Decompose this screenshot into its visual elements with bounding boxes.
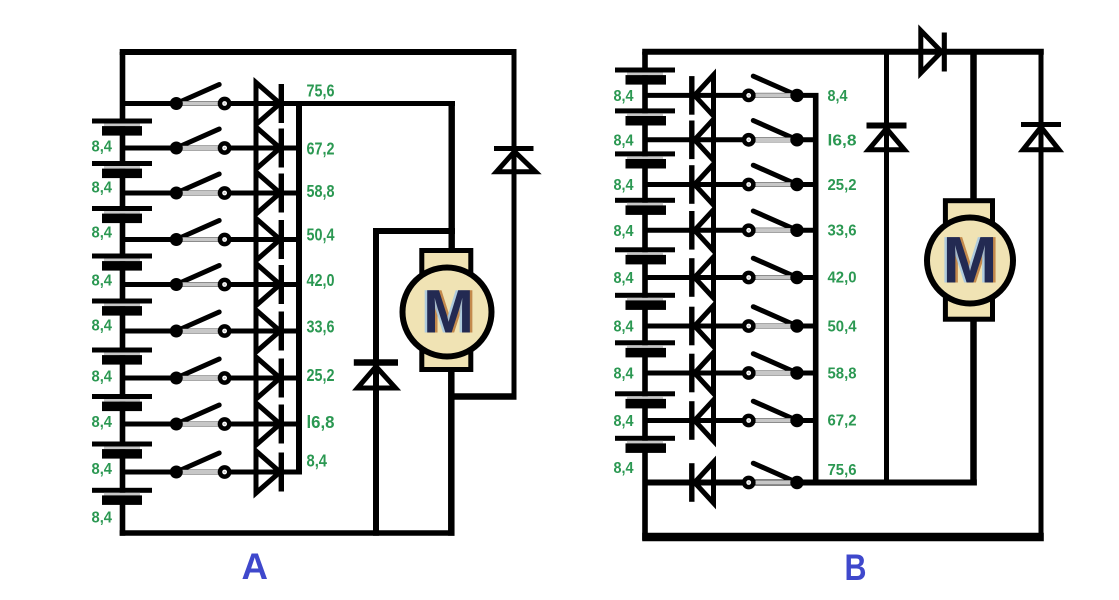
svg-text:8,4: 8,4	[92, 368, 113, 385]
svg-text:l6,8: l6,8	[828, 132, 857, 149]
svg-text:8,4: 8,4	[92, 272, 113, 289]
svg-text:42,0: 42,0	[828, 270, 857, 287]
svg-text:50,4: 50,4	[828, 319, 857, 336]
svg-text:58,8: 58,8	[828, 366, 857, 383]
svg-text:8,4: 8,4	[614, 132, 634, 149]
svg-text:l6,8: l6,8	[307, 412, 335, 432]
svg-text:33,6: 33,6	[307, 316, 335, 336]
svg-text:25,2: 25,2	[828, 177, 857, 194]
svg-text:8,4: 8,4	[307, 451, 328, 471]
svg-text:25,2: 25,2	[307, 365, 335, 385]
svg-text:B: B	[845, 547, 867, 588]
svg-text:8,4: 8,4	[92, 461, 113, 478]
svg-text:8,4: 8,4	[92, 224, 113, 241]
svg-text:8,4: 8,4	[614, 223, 634, 240]
svg-text:8,4: 8,4	[614, 177, 634, 194]
svg-text:50,4: 50,4	[307, 224, 335, 244]
svg-text:8,4: 8,4	[92, 179, 113, 196]
svg-text:8,4: 8,4	[92, 138, 113, 155]
svg-text:8,4: 8,4	[614, 270, 634, 287]
svg-text:67,2: 67,2	[307, 138, 335, 158]
svg-text:8,4: 8,4	[92, 509, 113, 526]
svg-text:42,0: 42,0	[307, 270, 335, 290]
svg-text:8,4: 8,4	[614, 413, 634, 430]
svg-text:8,4: 8,4	[614, 366, 634, 383]
svg-text:8,4: 8,4	[614, 460, 634, 477]
svg-text:8,4: 8,4	[92, 414, 113, 431]
svg-text:M: M	[423, 278, 474, 346]
svg-text:33,6: 33,6	[828, 223, 857, 240]
svg-text:8,4: 8,4	[828, 88, 848, 105]
svg-text:75,6: 75,6	[828, 462, 857, 479]
svg-text:75,6: 75,6	[307, 81, 335, 101]
svg-text:67,2: 67,2	[828, 413, 857, 430]
svg-text:A: A	[242, 546, 269, 587]
svg-text:8,4: 8,4	[92, 317, 113, 334]
svg-text:M: M	[943, 223, 998, 297]
svg-text:8,4: 8,4	[614, 88, 634, 105]
svg-text:58,8: 58,8	[307, 181, 335, 201]
svg-text:8,4: 8,4	[614, 319, 634, 336]
